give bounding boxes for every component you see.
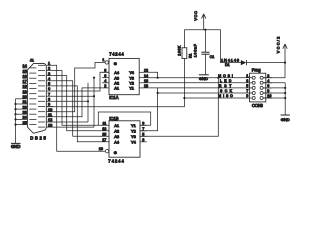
wire J1 pin10 to IC1A enable G xyxy=(54,62,106,111)
svg-text:18: 18 xyxy=(144,84,148,88)
junction dots right GND bus xyxy=(284,87,286,99)
svg-text:IC1A: IC1A xyxy=(109,95,119,100)
connector CON6 body xyxy=(250,73,266,102)
wire J1 pin12 to column A2 xyxy=(54,121,89,123)
wire net MOSI to Prog pin1 xyxy=(146,77,242,79)
diode D1 symbol xyxy=(241,60,246,65)
IC IC1A enable bubble xyxy=(105,61,108,64)
svg-text:17: 17 xyxy=(102,138,106,142)
connector CON6 pin circles xyxy=(252,76,263,99)
svg-text:100K: 100K xyxy=(177,45,181,56)
svg-text:5: 5 xyxy=(246,84,248,88)
svg-text:MISO: MISO xyxy=(218,94,233,98)
wire J1 pin4 to IC1B input A3 xyxy=(54,81,110,137)
wire IC1B Y2 riser to SCK net xyxy=(140,88,158,131)
IC IC1B input pin numbers 11 13 15 17 xyxy=(102,121,106,141)
IC IC1A body xyxy=(109,58,139,94)
wire J1 pin9 long net to MISO node xyxy=(46,98,184,107)
wire J1 pin7 to column A3 xyxy=(54,95,95,97)
wire J1 pin2 to IC1B input A1 xyxy=(54,71,110,126)
svg-text:10: 10 xyxy=(267,94,271,98)
svg-text:A1: A1 xyxy=(114,123,119,128)
svg-text:11: 11 xyxy=(102,121,106,125)
svg-text:C1: C1 xyxy=(210,55,215,59)
wire J1 pin8 to column A2 xyxy=(54,100,89,102)
svg-text:A3: A3 xyxy=(114,134,119,139)
svg-text:G: G xyxy=(114,150,117,155)
IC IC1B internal labels Y1-Y4 xyxy=(131,123,137,145)
svg-text:G: G xyxy=(114,61,117,66)
svg-text:Y3: Y3 xyxy=(131,134,136,139)
svg-text:1: 1 xyxy=(246,74,248,78)
svg-text:9: 9 xyxy=(246,94,248,98)
svg-text:Y1: Y1 xyxy=(129,86,134,91)
svg-text:4: 4 xyxy=(267,79,269,83)
IC IC1B enable bubble xyxy=(105,150,108,153)
connector CON6 right pin numbers 2 4 6 8 10 xyxy=(267,74,271,98)
connector CON6 left stubs xyxy=(242,78,252,98)
svg-text:RST: RST xyxy=(219,84,231,88)
junction dot VCC/2 node xyxy=(284,62,286,64)
junction dot column A2 at pin8 xyxy=(87,100,89,102)
ground symbol below C1 xyxy=(199,74,209,76)
connector J1 left pin stubs 14-25 xyxy=(22,68,27,125)
connector J1 right pin stubs 1-13 xyxy=(46,65,53,127)
ground symbol lower-right xyxy=(281,114,290,116)
wire IC1A Y4 drop to MOSI net xyxy=(146,72,158,77)
IC IC1B internal labels A1-A4 xyxy=(114,123,120,145)
wire net RST to Prog pin5 xyxy=(146,87,242,89)
svg-text:12: 12 xyxy=(144,68,148,72)
connector J1 inner contacts right column xyxy=(38,65,45,127)
resistor R1 bottom lead xyxy=(183,59,185,99)
wire J1 pin13 to column A3 xyxy=(54,126,95,128)
capacitor C1 top lead xyxy=(204,30,206,53)
svg-text:5: 5 xyxy=(142,132,144,136)
svg-text:74244: 74244 xyxy=(108,159,124,164)
junction dot MOSI net xyxy=(157,77,159,79)
svg-text:74244: 74244 xyxy=(109,52,124,57)
svg-text:16: 16 xyxy=(144,79,148,83)
resistor R1 top lead xyxy=(183,30,185,48)
svg-text:VCC/2: VCC/2 xyxy=(276,37,280,54)
svg-text:R1: R1 xyxy=(188,53,192,58)
connector CON6 right stubs xyxy=(263,78,272,98)
svg-text:6: 6 xyxy=(267,84,269,88)
junction dot SCK column xyxy=(157,92,159,94)
svg-text:Y4: Y4 xyxy=(131,140,137,145)
svg-text:DB25: DB25 xyxy=(30,135,46,140)
IC IC1A output pin numbers 12 14 16 18 xyxy=(144,68,148,88)
svg-text:CON6: CON6 xyxy=(252,103,264,108)
wire VCC rail to diode anode xyxy=(221,30,243,63)
svg-text:2: 2 xyxy=(104,84,106,88)
junction dot MISO node xyxy=(183,97,185,99)
svg-text:14: 14 xyxy=(144,74,148,78)
junction dot Y3 riser xyxy=(217,77,219,79)
svg-text:8: 8 xyxy=(267,89,269,93)
connector J1 inner contacts left column xyxy=(29,68,36,125)
wire net MISO to Prog pin9 xyxy=(184,97,242,99)
wire VCC/2 node to Prog pin2 xyxy=(263,63,285,78)
wire GND bus vertical xyxy=(15,99,17,144)
wire J1 pin1 to IC1B enable xyxy=(54,65,106,151)
IC IC1A output stubs xyxy=(139,72,146,88)
capacitor C1 bottom lead xyxy=(204,54,206,75)
resistor R1 body xyxy=(182,48,187,59)
svg-text:15: 15 xyxy=(102,132,106,136)
IC IC1A internal labels A4-A1 xyxy=(114,70,120,91)
svg-text:GND: GND xyxy=(199,76,208,81)
svg-text:3: 3 xyxy=(142,138,144,142)
IC IC1A input stubs xyxy=(102,72,109,88)
svg-text:Prog: Prog xyxy=(252,68,262,73)
svg-text:100nF: 100nF xyxy=(193,44,197,57)
junction dot column A3 at pin7 xyxy=(93,95,95,97)
svg-text:7: 7 xyxy=(246,89,248,93)
wire net SCK to Prog pin7 xyxy=(158,92,242,94)
wire IC1B Y1 wrap-around xyxy=(98,112,150,125)
IC IC1B output stubs xyxy=(140,125,147,142)
wire net LED to Prog pin3 xyxy=(146,82,242,84)
svg-text:19: 19 xyxy=(99,147,103,151)
IC IC1A input pin numbers 8 6 4 2 xyxy=(104,68,106,88)
svg-text:25: 25 xyxy=(22,120,26,125)
svg-text:GND: GND xyxy=(11,144,20,149)
junction dot column A3 top xyxy=(93,77,95,79)
svg-text:6: 6 xyxy=(104,74,106,78)
capacitor C1 plates xyxy=(201,52,209,54)
svg-text:1N4148: 1N4148 xyxy=(221,59,239,63)
IC IC1A internal labels Y4-Y1 xyxy=(129,70,135,91)
wire VCC rail xyxy=(184,29,220,31)
wire J1 pin5 to IC1B input A4 xyxy=(54,86,110,142)
IC IC1B output pin numbers 9 7 5 3 xyxy=(142,121,144,141)
wire IC1B Y3 riser to MOSI net xyxy=(140,78,218,137)
wire diode cathode to VCC/2 node xyxy=(247,62,286,64)
svg-text:LED: LED xyxy=(220,79,232,83)
svg-text:2: 2 xyxy=(267,74,269,78)
wire J1 pin11 to IC1A input A1 xyxy=(54,88,103,117)
connector J1 DB25 body outline xyxy=(27,63,46,133)
wire column pin7/pin13 to IC1A A3 xyxy=(93,78,95,127)
power symbol VCC arrow xyxy=(202,14,206,30)
svg-text:4: 4 xyxy=(104,79,106,83)
svg-text:J1: J1 xyxy=(30,57,34,62)
svg-text:VCC: VCC xyxy=(194,11,198,21)
svg-text:A4: A4 xyxy=(114,70,120,75)
svg-text:A2: A2 xyxy=(114,129,119,134)
wire J1 pin3 to IC1B input A2 xyxy=(54,76,110,131)
connector J1 right pin numbers 1-13 xyxy=(48,61,53,128)
svg-text:A1: A1 xyxy=(114,86,119,91)
svg-text:9: 9 xyxy=(142,121,144,125)
svg-text:D1: D1 xyxy=(225,63,230,67)
svg-text:1: 1 xyxy=(102,58,104,62)
svg-text:13: 13 xyxy=(48,122,52,127)
svg-text:IC1B: IC1B xyxy=(109,116,119,121)
connector CON6 left pin numbers 1 3 5 7 9 xyxy=(246,74,248,98)
svg-text:GND: GND xyxy=(281,117,290,122)
svg-text:Y1: Y1 xyxy=(131,123,136,128)
svg-text:Y2: Y2 xyxy=(131,129,136,134)
junction dots GND bus xyxy=(14,103,16,126)
wire GND bus taps pins 20-25 xyxy=(16,99,23,125)
svg-text:SCK: SCK xyxy=(220,89,233,93)
connector J1 left pin numbers 14-25 xyxy=(22,63,27,125)
svg-text:8: 8 xyxy=(104,68,106,72)
svg-text:7: 7 xyxy=(142,127,144,131)
power symbol VCC/2 arrow xyxy=(283,44,287,63)
svg-text:A4: A4 xyxy=(114,140,120,145)
svg-text:3: 3 xyxy=(246,79,248,83)
wire Prog pins 4 6 8 10 to right GND bus xyxy=(263,83,285,115)
svg-text:13: 13 xyxy=(102,127,106,131)
ground symbol lower-left xyxy=(11,142,21,144)
IC IC1B body xyxy=(109,121,140,157)
wire J1 pin6 to IC1A input A4 xyxy=(54,72,110,91)
svg-text:Y4: Y4 xyxy=(129,70,135,75)
wire column pin8/pin12 to IC1A A2 xyxy=(87,83,89,122)
junction dot VCC rail at C1 xyxy=(204,29,206,31)
